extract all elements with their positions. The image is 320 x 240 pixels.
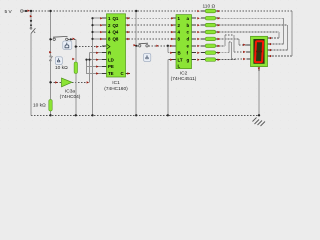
svg-text:IC3a: IC3a (65, 89, 75, 95)
svg-text:IC1: IC1 (112, 80, 120, 86)
svg-text:LT: LT (178, 57, 183, 62)
svg-text:L: L (178, 63, 181, 68)
svg-text:5 V: 5 V (5, 9, 13, 15)
svg-text:PE: PE (108, 64, 114, 69)
svg-text:10 kΩ: 10 kΩ (33, 103, 46, 109)
svg-text:(74HC4511): (74HC4511) (171, 76, 197, 82)
svg-text:(74HC04): (74HC04) (60, 94, 81, 100)
svg-text:10 kΩ: 10 kΩ (55, 65, 68, 71)
svg-text:(74HC160): (74HC160) (104, 86, 128, 92)
svg-text:Q4: Q4 (113, 30, 119, 35)
svg-text:Q2: Q2 (113, 23, 119, 28)
svg-text:Q8: Q8 (113, 37, 119, 42)
svg-text:g: g (187, 57, 190, 62)
svg-text:IC2: IC2 (180, 70, 188, 76)
svg-text:Q1: Q1 (113, 16, 119, 21)
svg-text:110 Ω: 110 Ω (203, 4, 216, 10)
svg-text:d: d (187, 37, 190, 42)
svg-text:TE: TE (108, 71, 114, 76)
svg-text:LD: LD (108, 57, 114, 62)
svg-text:B: B (178, 50, 181, 55)
svg-text:b: b (187, 23, 190, 28)
